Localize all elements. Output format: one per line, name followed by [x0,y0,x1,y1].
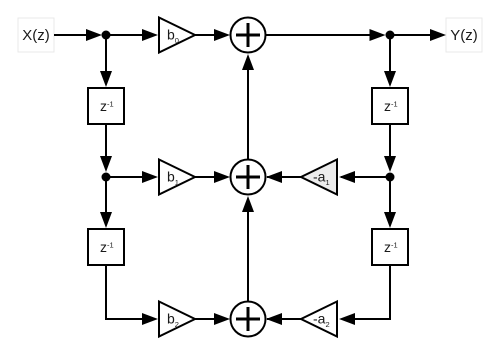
svg-text:X(z): X(z) [22,27,50,44]
svg-text:Y(z): Y(z) [450,27,478,44]
